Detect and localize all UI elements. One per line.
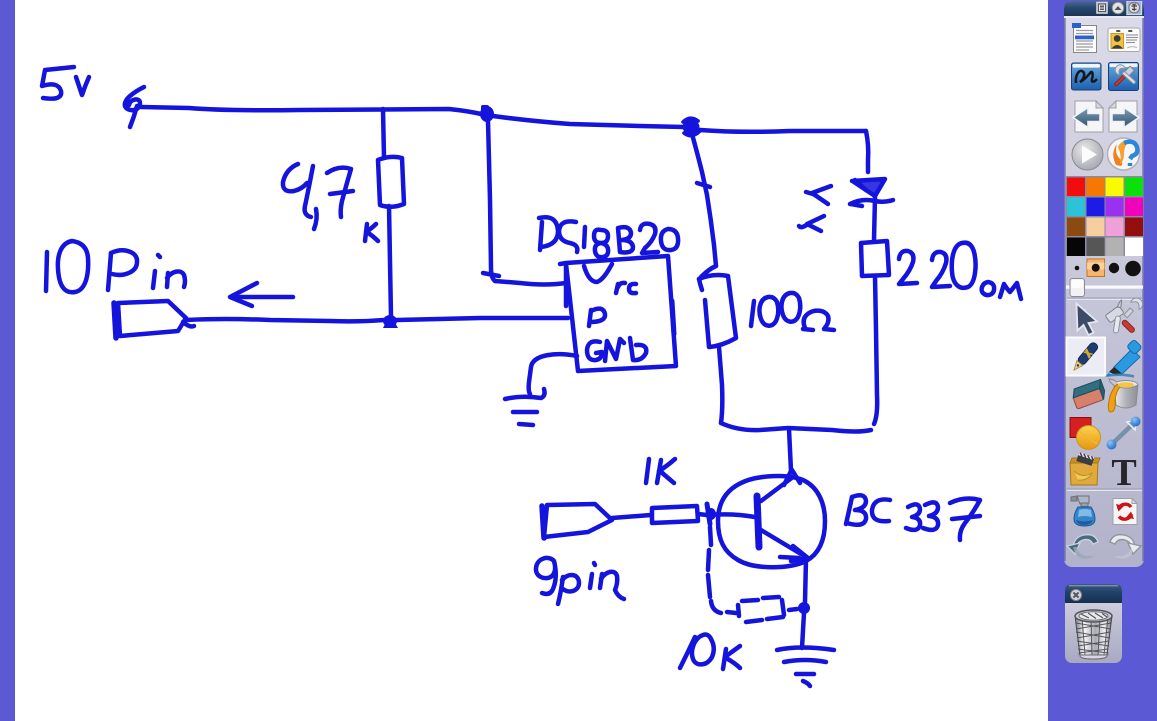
wire emitter to ground bbox=[802, 558, 806, 648]
wire 5v rail top bbox=[141, 107, 481, 114]
node emitter junction bbox=[798, 602, 810, 614]
label 10 Pin bbox=[46, 241, 185, 292]
icon movie-box bbox=[1070, 452, 1100, 485]
icon open-file menu bbox=[1072, 23, 1097, 53]
icon reload-page bbox=[1113, 499, 1137, 525]
color palette bbox=[1066, 176, 1143, 256]
label 10k bbox=[680, 635, 740, 670]
connector X2 9pin bbox=[542, 504, 612, 538]
svg-text:T: T bbox=[1111, 452, 1136, 494]
icon id-card bbox=[1108, 28, 1140, 52]
header pin button bbox=[1127, 1, 1142, 15]
trash title bar bbox=[1065, 584, 1122, 603]
label Vcc pin bbox=[584, 264, 636, 293]
wire GND pin to ground bbox=[529, 354, 577, 394]
icon line-arrow bbox=[1107, 417, 1141, 450]
node junction J3 bbox=[383, 314, 398, 328]
dot size selected bbox=[1087, 259, 1105, 277]
wire J1 to J2 bbox=[493, 116, 684, 127]
transistor collector with arrow bbox=[761, 470, 800, 501]
node junction J1 bbox=[480, 105, 494, 122]
transistor Q1 BC337 circle bbox=[718, 476, 825, 567]
icon page-forward bbox=[1109, 101, 1139, 132]
arrow to 10pin bbox=[230, 283, 293, 306]
label 220om bbox=[899, 243, 1021, 299]
toolbar panel bbox=[1064, 1, 1144, 567]
label 100ohm bbox=[751, 293, 834, 330]
panel header bar bbox=[1064, 1, 1144, 16]
icon redo bbox=[1110, 535, 1141, 559]
icon pen selected bbox=[1067, 338, 1106, 376]
node 5v terminal hook bbox=[125, 87, 144, 127]
label DS18B20 bbox=[539, 217, 678, 257]
node base junction bbox=[706, 504, 716, 524]
wire loop bottom bbox=[721, 423, 871, 432]
icon play bbox=[1072, 139, 1103, 170]
connector X1 10pin bbox=[114, 301, 194, 338]
label 9pin bbox=[536, 558, 624, 604]
trash window bbox=[1065, 584, 1122, 663]
led light arrows bbox=[799, 186, 831, 231]
node junction J2 scribble bbox=[683, 118, 701, 135]
icon config-window bbox=[1109, 63, 1139, 91]
icon tools bbox=[1103, 296, 1145, 334]
wire base bbox=[709, 514, 755, 517]
icon fill-bucket bbox=[1108, 379, 1138, 412]
label D pin bbox=[589, 309, 605, 326]
icon shapes bbox=[1070, 418, 1101, 450]
icon help-app bbox=[1108, 138, 1140, 170]
ground GND2 bbox=[777, 648, 834, 687]
wire data line bbox=[186, 318, 568, 321]
label 1K bbox=[646, 459, 675, 483]
resistor R5 10k dashed bbox=[708, 527, 797, 622]
wire down to LED bbox=[866, 131, 868, 172]
led D1 bbox=[850, 179, 893, 240]
transistor base bar bbox=[757, 496, 759, 547]
resistor R4 1k bbox=[612, 506, 707, 523]
transistor emitter with arrow bbox=[761, 530, 808, 561]
label 5v bbox=[42, 67, 89, 99]
dot size medium bbox=[1109, 263, 1119, 273]
trash close button bbox=[1070, 589, 1081, 600]
resistor R3 220ohm bbox=[861, 241, 889, 276]
wire J1 down to Vcc bbox=[483, 121, 566, 285]
dot size large bbox=[1125, 261, 1141, 277]
wire 220 to loop bottom bbox=[874, 276, 877, 424]
icon eraser bbox=[1070, 379, 1107, 409]
resistor R1 4.7k bbox=[378, 109, 404, 317]
ic U1 DS18B20 box bbox=[560, 256, 676, 371]
trash can icon bbox=[1075, 610, 1112, 659]
icon spray bbox=[1071, 496, 1095, 526]
icon cursor-arrow bbox=[1077, 304, 1098, 336]
icon highlighter bbox=[1105, 339, 1142, 377]
label BC337 bbox=[846, 495, 980, 540]
wire J2 to LED top bbox=[700, 130, 866, 132]
label 4,7k bbox=[283, 164, 378, 241]
icon page-back bbox=[1073, 101, 1103, 132]
label GND pin bbox=[587, 338, 646, 361]
ground GND1 bbox=[505, 389, 545, 425]
dot size small bbox=[1075, 266, 1080, 271]
icon signature-window bbox=[1072, 63, 1102, 90]
header grid button bbox=[1097, 3, 1107, 14]
wire J2 down to 100ohm bbox=[692, 134, 716, 266]
header rollup button bbox=[1112, 2, 1124, 14]
resistor R2 100ohm bbox=[699, 266, 736, 423]
icon undo bbox=[1067, 535, 1098, 559]
wire collector drop bbox=[789, 429, 791, 471]
slider bbox=[1066, 279, 1143, 297]
